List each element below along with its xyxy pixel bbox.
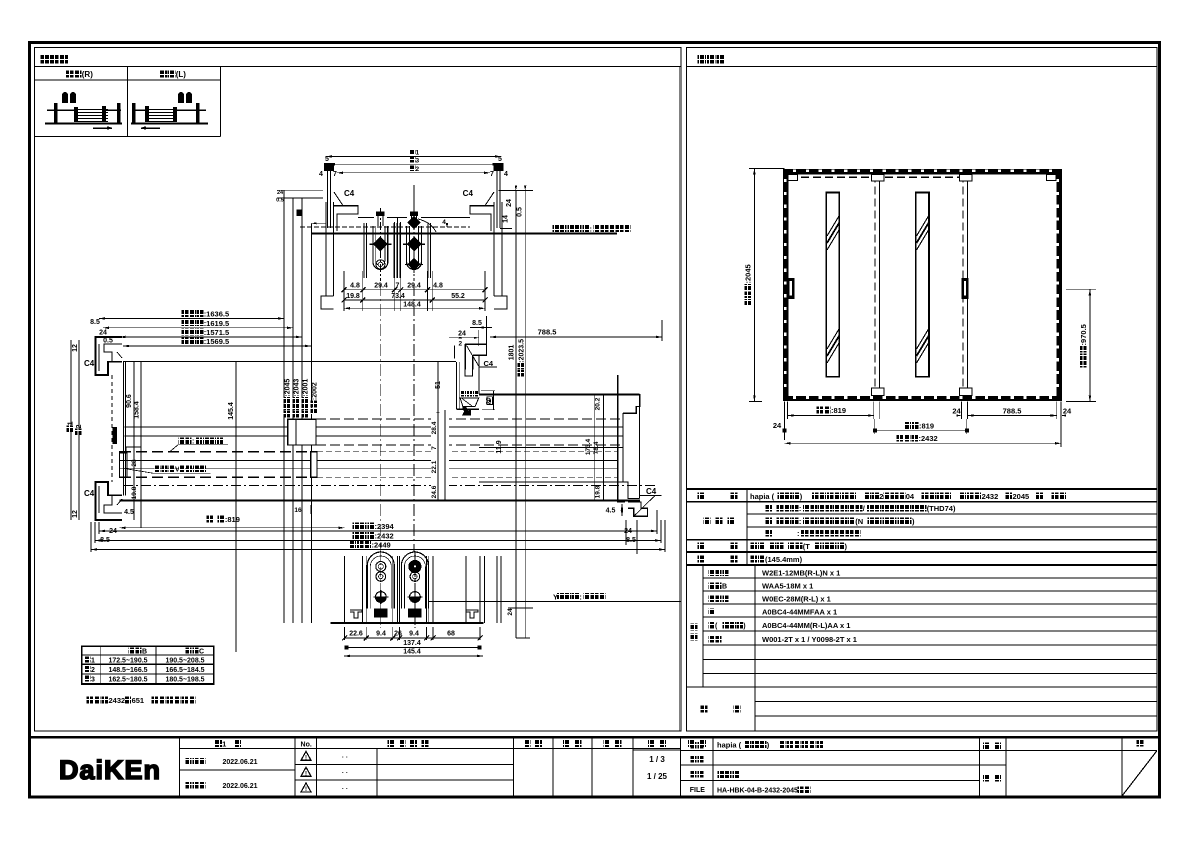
left jamb bottom profile: [72, 482, 134, 544]
top rail dim lines: [319, 149, 508, 178]
mini table: [35, 66, 221, 136]
svg-text:162.5~180.5: 162.5~180.5: [108, 676, 147, 683]
svg-text::2002: :2002: [311, 382, 318, 400]
left jamb pocket lines: [112, 362, 141, 500]
svg-text:0.5: 0.5: [517, 207, 524, 217]
width dim lines upper: [99, 310, 311, 348]
svg-text:78.4: 78.4: [593, 441, 600, 454]
svg-text:2045: 2045: [1013, 492, 1030, 501]
svg-text:190.5~208.5: 190.5~208.5: [165, 657, 204, 664]
svg-text:22.6: 22.6: [349, 631, 363, 638]
svg-text:4.8: 4.8: [433, 283, 443, 290]
spec remarks: [700, 705, 740, 712]
floor baseline: [331, 601, 681, 623]
title dates: [185, 758, 257, 790]
frame band white notches: [784, 170, 1059, 399]
svg-text:W2E1-12MB(R-L)N x 1: W2E1-12MB(R-L)N x 1: [762, 569, 840, 578]
door frame outer thick band: [786, 172, 1059, 399]
door stile 2: [959, 175, 972, 397]
spec row lock: [697, 555, 802, 564]
title block top line: [30, 736, 1160, 739]
channel divider between rollers: [394, 218, 400, 279]
svg-text::1636.5: :1636.5: [204, 310, 229, 319]
svg-text:W0EC-28M(R-L) x 1: W0EC-28M(R-L) x 1: [762, 595, 831, 604]
svg-text:788.5: 788.5: [538, 328, 557, 337]
svg-text:24: 24: [1063, 407, 1072, 416]
svg-text:68: 68: [447, 631, 455, 638]
middle post profile: [435, 316, 503, 454]
svg-text:W001-2T x 1 / Y0098-2T x 1: W001-2T x 1 / Y0098-2T x 1: [762, 635, 857, 644]
top hanger blocks: [788, 175, 1056, 181]
svg-text:24: 24: [624, 528, 632, 535]
svg-text:1801: 1801: [508, 345, 515, 361]
right vertical gauge labels: [508, 339, 525, 377]
svg-text:7: 7: [333, 171, 337, 178]
svg-text:173.4: 173.4: [585, 438, 592, 455]
door panel 2 (front): [120, 452, 618, 477]
svg-text::2001: :2001: [302, 379, 309, 397]
front view label: [687, 55, 1158, 66]
daiken logo: [59, 755, 161, 785]
svg-text:1: 1: [67, 421, 74, 425]
svg-text:172.5~190.5: 172.5~190.5: [108, 657, 147, 664]
svg-text:2: 2: [416, 166, 420, 173]
svg-text:19.8: 19.8: [595, 485, 602, 498]
opening bottom line: [120, 500, 641, 502]
right jamb profile: [585, 375, 640, 500]
svg-text:51: 51: [435, 381, 442, 389]
svg-text:1: 1: [91, 657, 95, 664]
top rail dim row1: [342, 283, 488, 293]
svg-text:145.4: 145.4: [403, 649, 421, 656]
svg-text::: :: [579, 593, 582, 602]
front bottom dims row1: [785, 402, 1072, 420]
svg-text::819: :819: [831, 406, 846, 415]
svg-text:DaiKEn: DaiKEn: [59, 755, 161, 785]
dim column mid verticals: [431, 362, 449, 500]
rail channel body: [300, 218, 470, 228]
svg-text:04: 04: [906, 492, 915, 501]
svg-text:12: 12: [72, 344, 79, 352]
svg-text:22.1: 22.1: [431, 460, 438, 473]
svg-text:B: B: [142, 648, 147, 655]
svg-text:!: !: [305, 787, 307, 793]
section view label: [35, 55, 682, 66]
handle middle door: [962, 278, 969, 299]
svg-text:!: !: [305, 771, 307, 777]
hanger roller unit 1: [364, 208, 397, 281]
svg-text:2: 2: [91, 667, 95, 674]
svg-text:· ·: · ·: [342, 786, 348, 793]
svg-text::2045: :2045: [744, 264, 753, 283]
svg-text:4.5: 4.5: [124, 509, 134, 516]
svg-text:(THD74): (THD74): [927, 504, 956, 513]
glass window right: [916, 192, 929, 376]
svg-text:7: 7: [396, 283, 400, 290]
name cells: [690, 741, 1001, 795]
page diagonal: [1122, 751, 1157, 796]
svg-text::1619.5: :1619.5: [204, 319, 229, 328]
svg-text:158.4: 158.4: [134, 401, 141, 419]
svg-text:180.5~198.5: 180.5~198.5: [165, 676, 204, 683]
hanger roller label: [169, 438, 228, 453]
svg-text:FILE: FILE: [690, 787, 705, 794]
svg-text::2432: :2432: [919, 434, 938, 443]
svg-text:4.5: 4.5: [606, 508, 616, 515]
svg-text:148.5~166.5: 148.5~166.5: [108, 667, 147, 674]
spec parts rows: [690, 569, 857, 645]
svg-text:2: 2: [76, 424, 83, 428]
bottom rail roller 1: [367, 551, 394, 628]
bottom rail dims row2: [344, 640, 481, 650]
svg-text:24: 24: [507, 608, 514, 616]
door stile 1: [872, 175, 885, 397]
svg-text:24.6: 24.6: [431, 485, 438, 498]
bottom rail dims row3: [344, 649, 483, 658]
svg-text:19.8: 19.8: [346, 293, 360, 300]
front dim right height: [1066, 289, 1096, 401]
middle vertical dims: [126, 362, 236, 652]
door panel 1 (rear): [125, 419, 624, 445]
svg-text:148.4: 148.4: [403, 302, 421, 309]
spec row yoshiki: [697, 492, 1066, 501]
svg-text::: :: [797, 529, 800, 538]
svg-text:C4: C4: [463, 189, 474, 198]
svg-text:2: 2: [879, 492, 883, 501]
svg-text:(N: (N: [855, 517, 863, 526]
bottom right small dims: [497, 556, 533, 638]
svg-text:12: 12: [72, 510, 79, 518]
svg-text:HA-HBK-04-B-2432-2045-: HA-HBK-04-B-2432-2045-: [717, 788, 801, 795]
spec table grid: [687, 489, 1158, 731]
front bottom dims row2: [773, 419, 969, 440]
track centerline bottom: [123, 485, 655, 487]
svg-text:19.8: 19.8: [131, 486, 138, 499]
svg-text:C4: C4: [646, 487, 657, 496]
top rail dim extensions: [344, 271, 485, 311]
ceiling line (hanging rail mount): [312, 219, 631, 234]
svg-text:2: 2: [458, 341, 462, 348]
svg-text:16: 16: [294, 507, 302, 514]
door width dim 819: [120, 515, 345, 529]
height labels rotated: [284, 379, 319, 418]
roller centerlines through doors: [380, 284, 414, 552]
svg-text::: :: [799, 504, 802, 513]
revision triangles: [301, 748, 377, 796]
right vertical gauge lines: [499, 186, 534, 639]
svg-text::1571.5: :1571.5: [204, 328, 229, 337]
rail bracket right: [463, 189, 507, 309]
spec rows finish: [703, 504, 956, 538]
svg-text:3: 3: [91, 676, 95, 683]
svg-text:14: 14: [503, 215, 510, 223]
svg-text:(L): (L): [176, 70, 187, 79]
svg-text::2449: :2449: [372, 541, 391, 550]
svg-text:2432: 2432: [109, 696, 126, 705]
svg-text::2432: :2432: [375, 532, 394, 541]
svg-text:A0BC4-44MMFAA x 1: A0BC4-44MMFAA x 1: [762, 608, 837, 617]
svg-text:24: 24: [458, 331, 466, 338]
svg-text:24: 24: [952, 407, 961, 416]
svg-text:): ): [743, 623, 745, 630]
svg-text:5: 5: [325, 156, 329, 163]
svg-text::2043: :2043: [293, 379, 300, 397]
svg-text:24: 24: [99, 330, 107, 337]
svg-text:(T: (T: [803, 542, 810, 551]
mini diagram left-pull: [131, 92, 208, 130]
bottom rail frame verticals: [345, 556, 485, 623]
svg-text:24: 24: [773, 421, 782, 430]
svg-text:· ·: · ·: [342, 770, 348, 777]
svg-text:9.4: 9.4: [409, 631, 419, 638]
svg-text:137.4: 137.4: [403, 640, 421, 647]
svg-text:C4: C4: [84, 359, 95, 368]
right panel border: [687, 48, 1158, 732]
svg-text:26: 26: [394, 631, 402, 638]
opening top line: [123, 361, 456, 363]
svg-text::: :: [799, 517, 802, 526]
svg-text:2022.06.21: 2022.06.21: [222, 783, 257, 790]
bottom rail roller 2: [401, 551, 428, 628]
svg-text:90.6: 90.6: [126, 394, 133, 408]
svg-text:C4: C4: [344, 189, 355, 198]
top rail dim row2: [342, 293, 488, 303]
note below table: [86, 696, 195, 705]
svg-text:A0BC4-44MM(R-L)AA x 1: A0BC4-44MM(R-L)AA x 1: [762, 621, 850, 630]
svg-text:20.2: 20.2: [595, 397, 602, 410]
svg-text:4: 4: [504, 171, 508, 178]
svg-text::: :: [590, 225, 593, 234]
svg-text:24: 24: [109, 528, 117, 535]
Y-rail label: [553, 593, 605, 602]
svg-text:1 / 25: 1 / 25: [647, 772, 668, 781]
svg-text:24: 24: [277, 190, 284, 196]
svg-text::970.5: :970.5: [1079, 324, 1088, 345]
fixed section lines: [479, 448, 623, 482]
svg-text::819: :819: [225, 515, 240, 524]
left jamb top profile: [84, 337, 122, 375]
hanger bolt left: [324, 163, 334, 228]
mini diagram right-pull: [45, 92, 122, 130]
svg-text:28.4: 28.4: [431, 421, 438, 434]
top track dashed: [789, 176, 964, 178]
svg-text:1 / 3: 1 / 3: [649, 755, 665, 764]
svg-text:2022.06.21: 2022.06.21: [222, 759, 257, 766]
svg-text:· ·: · ·: [342, 754, 348, 761]
svg-text:651: 651: [132, 696, 145, 705]
svg-text:4.8: 4.8: [350, 283, 360, 290]
svg-text:4: 4: [442, 219, 446, 226]
svg-text:hapia (: hapia (: [717, 741, 742, 750]
svg-text:145.4: 145.4: [228, 402, 235, 420]
svg-text:(R): (R): [82, 70, 93, 79]
svg-text::1569.5: :1569.5: [204, 337, 229, 346]
v-cap label: [125, 466, 211, 474]
front bottom dims row3: [785, 419, 1062, 447]
svg-text:1: 1: [222, 740, 226, 749]
svg-text:B: B: [722, 584, 727, 591]
title block grid: [180, 739, 1158, 797]
svg-text::2394: :2394: [375, 522, 395, 531]
svg-text:7: 7: [431, 446, 438, 450]
dim 788.5: [490, 320, 662, 341]
svg-text:(145.4mm): (145.4mm): [765, 555, 803, 564]
svg-text:WAA5-18M x 1: WAA5-18M x 1: [762, 582, 813, 591]
svg-text::2045: :2045: [284, 379, 291, 397]
svg-text:8.5: 8.5: [472, 320, 482, 327]
svg-text:4: 4: [319, 171, 323, 178]
front dim left height: [744, 168, 785, 401]
handle left door: [787, 278, 795, 299]
left jamb small dims: [67, 319, 113, 520]
svg-text:9.4: 9.4: [376, 631, 386, 638]
svg-text:5: 5: [498, 156, 502, 163]
svg-text:73.4: 73.4: [391, 293, 405, 300]
rail bracket left: [321, 189, 358, 309]
wall thickness table: [82, 646, 214, 684]
overall width dims: [91, 510, 665, 552]
tall height dim lines: [276, 190, 326, 623]
svg-text::819: :819: [919, 422, 934, 431]
svg-text:C4: C4: [84, 489, 95, 498]
svg-text:!: !: [305, 756, 307, 762]
floor guide clips: [350, 610, 478, 618]
dim 16: [294, 505, 311, 514]
svg-text:C: C: [199, 648, 204, 655]
spec row handle: [697, 542, 847, 551]
hanger bolt right: [494, 163, 504, 228]
left panel border: [35, 48, 682, 732]
svg-text:788.5: 788.5: [1003, 407, 1022, 416]
svg-text::2023.5: :2023.5: [518, 339, 525, 363]
fixed section header line: [479, 394, 640, 396]
scale values: [647, 755, 668, 781]
title row1 labels: [215, 740, 1143, 750]
svg-text:29.4: 29.4: [374, 283, 388, 290]
glass window left: [826, 192, 839, 376]
svg-text:7: 7: [490, 171, 494, 178]
svg-text:0.5: 0.5: [276, 198, 284, 204]
right jamb bottom hook: [606, 487, 662, 554]
svg-text:166.5~184.5: 166.5~184.5: [165, 667, 204, 674]
right wall edge: [678, 66, 680, 731]
svg-text:1: 1: [416, 150, 420, 157]
svg-text:2432: 2432: [982, 492, 999, 501]
svg-text:24: 24: [506, 199, 513, 207]
svg-text:3: 3: [416, 157, 420, 164]
svg-text:8.5: 8.5: [90, 319, 100, 326]
hanger roller unit 2: [397, 185, 430, 281]
bottom rail dims row1: [342, 627, 483, 641]
top rail dim row3: [344, 302, 485, 310]
svg-text:hapia (: hapia (: [750, 492, 775, 501]
svg-text:11.9: 11.9: [496, 440, 503, 453]
svg-text:No.: No.: [301, 742, 312, 749]
svg-text:55.2: 55.2: [451, 293, 465, 300]
